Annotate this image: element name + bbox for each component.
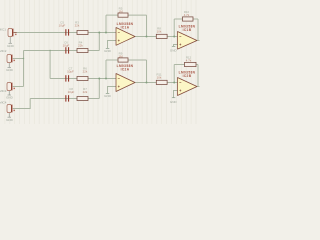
junction node row3 mix: [98, 78, 100, 80]
wire feedback1 top left: [106, 14, 118, 16]
op-amp IC2B: [178, 78, 198, 96]
svg-text:10µF: 10µF: [63, 43, 70, 47]
svg-text:GND: GND: [6, 118, 14, 122]
ground opamp1 plus: [106, 47, 110, 49]
ground opamp2 plus: [172, 45, 175, 47]
svg-text:IC2B: IC2B: [183, 74, 192, 78]
wire mic3 pin: [13, 86, 24, 88]
svg-text:10k: 10k: [157, 30, 162, 34]
svg-text:22k: 22k: [78, 43, 83, 47]
wire opamp2 plus input to gnd: [174, 45, 178, 47]
wire mic bus vertical: [23, 51, 25, 87]
wire feedback2 top left: [174, 18, 182, 20]
svg-text:IC2A: IC2A: [121, 67, 130, 71]
wire opamp3 plus input to gnd: [108, 87, 117, 94]
capacitor C5: [65, 29, 69, 35]
wire output2 stub: [197, 40, 200, 42]
wire riser row2 to row3: [49, 51, 51, 79]
microphone MIC1: [8, 28, 17, 36]
svg-text:MIC3: MIC3: [0, 89, 7, 93]
microphone MIC3: [7, 82, 15, 90]
wire feedback2 right riser: [197, 19, 199, 41]
resistor R9 feedback: [118, 58, 128, 62]
junction node row1 mix: [98, 32, 100, 34]
wire feedback4 top left: [174, 64, 184, 66]
wire row1 mic1 to opamp: [14, 32, 116, 34]
wire opamp4 plus input to gnd: [174, 91, 178, 98]
resistor R4: [77, 49, 88, 53]
junction node output1 feedback: [146, 36, 148, 38]
resistor R11 series: [156, 80, 167, 84]
ground opamp3 plus: [106, 92, 110, 94]
wire output3 to series resistor: [135, 82, 156, 84]
ground mic1: [9, 37, 13, 43]
wire feedback3 left riser: [105, 60, 107, 79]
wire mic2 pin: [13, 58, 24, 60]
ground mic4: [8, 113, 12, 117]
wire feedback1 top right: [128, 14, 147, 16]
junction node row2 tap: [49, 50, 50, 51]
svg-text:4.7k: 4.7k: [184, 13, 190, 17]
wire feedback1 left riser: [105, 15, 107, 32]
svg-text:22k: 22k: [83, 69, 88, 73]
resistor R5 feedback: [118, 13, 128, 17]
ground mic3: [8, 91, 12, 95]
svg-text:GND: GND: [170, 49, 178, 53]
wire riser row4 to row3: [98, 79, 100, 99]
wire feedback2 left riser: [173, 19, 175, 37]
op-amp IC2A: [116, 74, 135, 92]
wire feedback1 right riser: [146, 15, 148, 36]
svg-text:22k: 22k: [75, 24, 80, 28]
wire feedback2 top right: [193, 18, 198, 20]
capacitor C8: [65, 95, 69, 101]
op-amp IC1A: [116, 28, 135, 46]
wire feedback4 right riser: [197, 65, 199, 87]
ground mic2: [8, 63, 12, 68]
junction node row3 feedback tap: [105, 78, 107, 80]
wire riser row2 to row1: [98, 33, 100, 51]
resistor R12 feedback: [185, 62, 197, 66]
svg-text:MIC1: MIC1: [0, 28, 6, 32]
svg-text:1M: 1M: [118, 54, 123, 58]
svg-text:GND: GND: [6, 68, 14, 72]
svg-text:GND: GND: [170, 100, 178, 104]
microphone MIC4: [7, 104, 15, 112]
wire output4 stub: [197, 86, 200, 88]
svg-text:10k: 10k: [157, 76, 162, 80]
svg-text:1M: 1M: [118, 9, 123, 13]
resistor R10 feedback: [183, 17, 194, 21]
svg-text:10µF: 10µF: [59, 24, 66, 28]
svg-text:GND: GND: [104, 49, 112, 53]
capacitor C6: [65, 47, 69, 53]
wire feedback4 top right: [196, 64, 198, 66]
junction node row1 feedback tap: [105, 32, 107, 34]
wire row3: [50, 78, 116, 80]
svg-text:4.7k: 4.7k: [186, 59, 192, 63]
junction node mic2 tap: [23, 58, 24, 59]
op-amp IC1B: [178, 32, 198, 50]
svg-text:MIC2: MIC2: [0, 49, 7, 53]
resistor R6: [77, 77, 88, 81]
svg-text:MIC4: MIC4: [0, 101, 7, 105]
svg-text:22k: 22k: [83, 90, 88, 94]
resistor R3: [77, 31, 88, 35]
wire series resistor to opamp4: [167, 82, 177, 84]
wire feedback3 top left: [106, 59, 118, 61]
wire feedback4 left riser: [173, 65, 175, 83]
wire opamp1 plus input to gnd: [108, 41, 117, 49]
capacitor C7: [65, 75, 69, 81]
wire output1 to series resistor: [135, 36, 156, 38]
svg-text:10µF: 10µF: [68, 90, 75, 94]
svg-text:GND: GND: [104, 94, 112, 98]
resistor R7: [77, 97, 88, 101]
junction node opamp2 input: [173, 36, 175, 38]
svg-text:10µF: 10µF: [67, 69, 74, 73]
wire feedback3 right riser: [146, 60, 148, 83]
microphone MIC2: [7, 54, 15, 62]
svg-text:IC1A: IC1A: [121, 25, 130, 29]
svg-text:GND: GND: [7, 44, 15, 48]
junction node output3 feedback: [146, 82, 148, 84]
wire feedback3 top right: [128, 59, 147, 61]
ground opamp4 plus: [172, 97, 175, 99]
wire series resistor to opamp2: [167, 36, 177, 38]
wire mic4 pin: [13, 99, 30, 109]
svg-text:IC1B: IC1B: [183, 28, 192, 32]
wire row2: [24, 50, 100, 52]
wire row4: [30, 98, 99, 100]
junction node opamp4 input: [173, 82, 175, 84]
svg-text:GND: GND: [6, 96, 14, 100]
grid texture: [5, 0, 196, 124]
resistor R8 series: [156, 34, 167, 38]
